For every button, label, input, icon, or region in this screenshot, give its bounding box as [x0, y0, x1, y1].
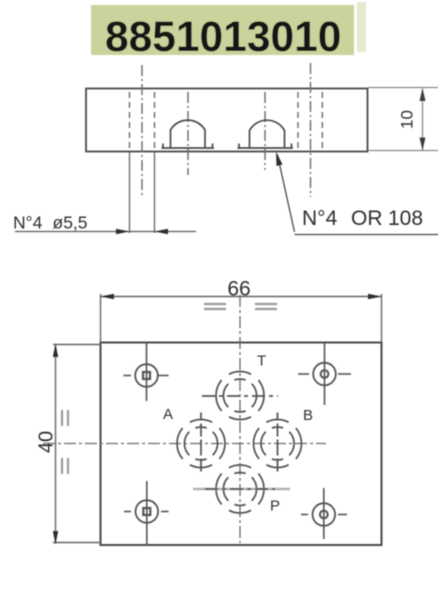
svg-text:T: T	[257, 353, 266, 370]
svg-text:8851013010: 8851013010	[105, 14, 341, 61]
svg-text:A: A	[163, 406, 173, 423]
svg-text:40: 40	[36, 431, 58, 453]
svg-text:P: P	[270, 498, 280, 515]
svg-text:N°4ø5,5: N°4ø5,5	[13, 213, 88, 233]
svg-text:B: B	[303, 407, 313, 424]
svg-text:N°4OR108: N°4OR108	[302, 207, 423, 230]
svg-text:66: 66	[227, 278, 250, 301]
svg-text:10: 10	[398, 110, 417, 129]
